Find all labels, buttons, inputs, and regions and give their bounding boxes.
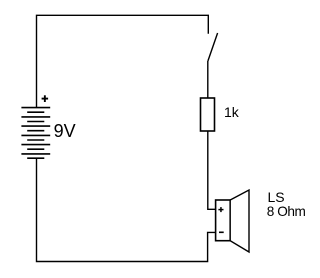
loudspeaker cone: [230, 190, 249, 252]
svg-text:1k: 1k: [224, 104, 240, 120]
wire top from battery + to switch: [37, 15, 209, 107]
svg-text:9V: 9V: [54, 121, 76, 141]
resistor 1k body: [201, 98, 215, 131]
switch S1 lever: [208, 33, 218, 61]
wire switch to resistor: [207, 61, 209, 98]
wire resistor to speaker plus: [208, 131, 216, 209]
speaker plus terminal mark: [218, 207, 223, 212]
battery plus sign: [42, 95, 49, 102]
svg-text:8 Ohm: 8 Ohm: [267, 204, 306, 219]
speaker minus terminal mark: [219, 231, 224, 233]
loudspeaker LS body: [216, 200, 231, 241]
svg-text:LS: LS: [268, 189, 285, 205]
wire speaker minus to bottom rail: [37, 158, 216, 261]
battery B1 plates: [21, 108, 50, 159]
